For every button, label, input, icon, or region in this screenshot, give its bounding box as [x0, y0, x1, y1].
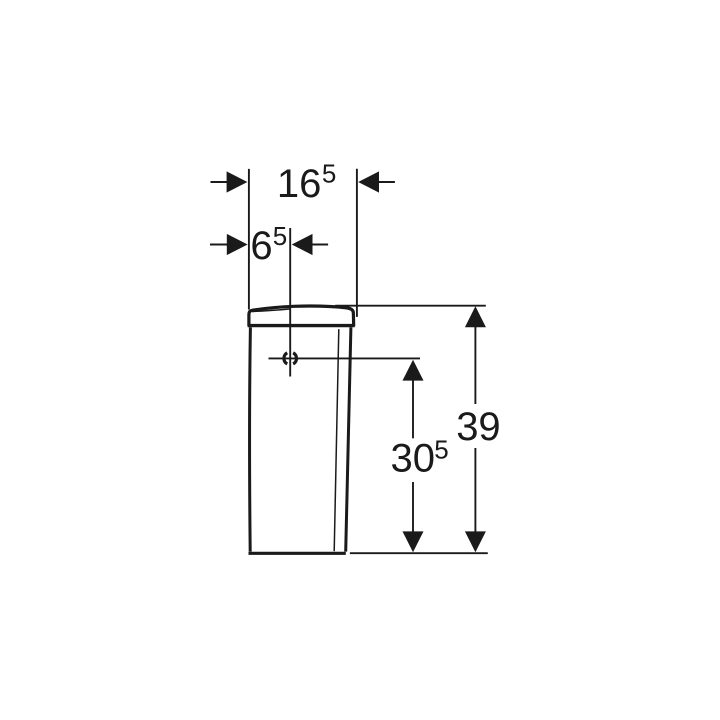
svg-text:5: 5 [273, 221, 287, 251]
svg-text:5: 5 [434, 435, 448, 465]
cistern lid outline [249, 306, 354, 326]
hole symbol left arc [284, 353, 287, 364]
cistern body right edge [346, 327, 351, 551]
bottom baseline [350, 552, 488, 554]
svg-text:16: 16 [277, 162, 322, 206]
cistern lid inner edge line [252, 309, 291, 312]
dim 16.5 left extension line [248, 169, 250, 310]
dim 30.5 vertical line lower [412, 482, 414, 533]
dim 39 bottom arrow [465, 531, 486, 552]
svg-text:39: 39 [456, 405, 501, 449]
dim 39 top arrow [465, 306, 486, 327]
dim 16.5 right arrow [378, 181, 395, 183]
hole centerline vertical [289, 228, 291, 377]
hole centerline horizontal to 30.5 dim [269, 357, 421, 359]
cistern body left edge [248, 327, 252, 551]
dim 39 vertical line lower [474, 448, 476, 533]
svg-text:30: 30 [391, 437, 436, 481]
dim 16.5 right extension line [356, 169, 358, 317]
dim 6.5 left arrow [210, 244, 229, 246]
dim 39 vertical line upper [474, 326, 476, 404]
svg-text:6: 6 [250, 224, 272, 268]
cistern bottom line [249, 552, 346, 555]
cistern inner right line [334, 329, 339, 551]
hole symbol right arc [293, 353, 296, 364]
dim 30.5 vertical line upper [412, 380, 414, 439]
cistern lid bottom line [248, 324, 355, 327]
lid top extension line to 39 dim [335, 305, 486, 307]
svg-text:5: 5 [322, 158, 336, 188]
dim 6.5 right arrow [311, 244, 328, 246]
dim 16.5 left arrow [211, 181, 230, 183]
dim 30.5 top arrow [403, 360, 424, 381]
dim 30.5 bottom arrow [403, 531, 424, 552]
